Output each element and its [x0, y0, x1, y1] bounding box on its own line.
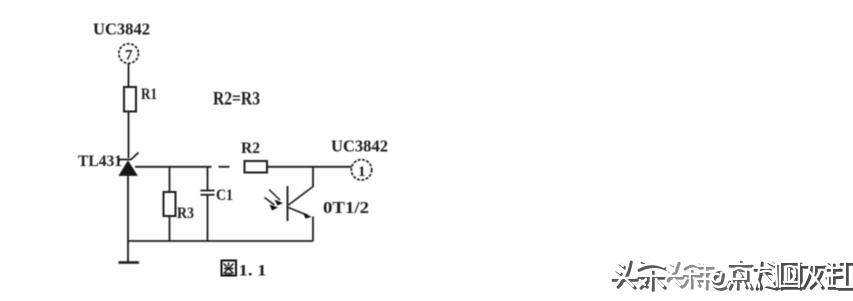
- capacitor C1: [201, 191, 215, 195]
- svg-text:R2=R3: R2=R3: [213, 89, 260, 110]
- wire node TL431 to C1 (top rail left): [135, 166, 212, 168]
- svg-text:C1: C1: [216, 187, 233, 204]
- svg-text:7: 7: [125, 48, 133, 64]
- watermark 头条@深夜烟灰缸 (embossed gray): [611, 260, 853, 290]
- light arrow 1 into phototransistor: [269, 190, 283, 206]
- phototransistor 0T1/2: [288, 186, 314, 241]
- wire dash before R2: [219, 166, 230, 168]
- wire R1 to TL431: [128, 112, 130, 159]
- watermark white relief pass: [611, 260, 852, 288]
- wire C1 to bottom rail: [207, 195, 209, 241]
- light arrow 2 into phototransistor: [265, 198, 279, 211]
- svg-text:1: 1: [358, 164, 366, 180]
- bottom rail wire: [128, 240, 313, 242]
- resistor R2: [245, 161, 268, 173]
- svg-text:R2: R2: [241, 140, 260, 157]
- wire R2 to pin1 circle: [267, 166, 352, 168]
- svg-text:UC3842: UC3842: [331, 137, 388, 156]
- svg-text:UC3842: UC3842: [93, 20, 150, 39]
- wire R3 branch: [169, 167, 171, 192]
- pin 7 circle: [119, 44, 139, 64]
- svg-text:R1: R1: [141, 86, 157, 103]
- wire TL431 to ground rail: [127, 176, 129, 242]
- wire R3 to bottom rail: [169, 216, 171, 241]
- caption 图1.1 (figure 1.1): [222, 261, 267, 280]
- wire pin1 rail to phototransistor collector: [312, 167, 314, 187]
- resistor R3: [164, 192, 176, 216]
- svg-text:0T1/2: 0T1/2: [323, 198, 369, 217]
- wire C1 branch: [207, 167, 209, 191]
- svg-text:R3: R3: [177, 205, 194, 222]
- TL431 regulator: [118, 153, 139, 176]
- wire to ground: [127, 241, 129, 262]
- svg-text:1. 1: 1. 1: [239, 263, 267, 280]
- ground: [119, 261, 140, 264]
- resistor R1: [124, 87, 136, 112]
- watermark dark pass: [613, 262, 853, 290]
- wire pin7 to R1: [128, 64, 130, 88]
- pin 1 circle: [351, 160, 371, 180]
- svg-text:TL431: TL431: [78, 153, 122, 170]
